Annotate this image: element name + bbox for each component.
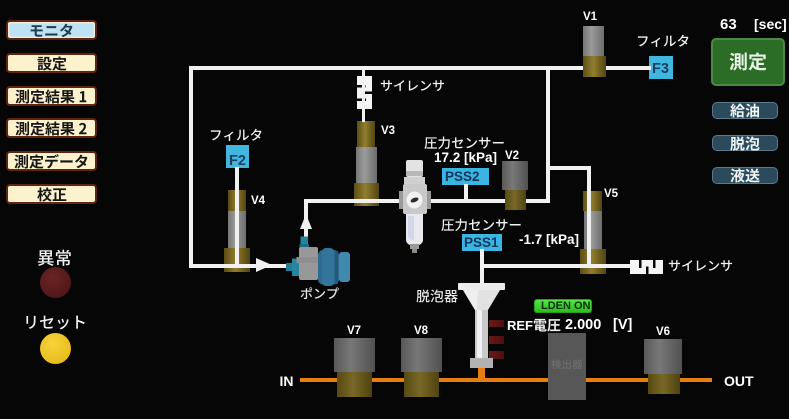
label 圧力センサー (PSS1) [441,218,522,234]
button 校正 [6,184,97,204]
label フィルタ (filter, left) [209,128,263,144]
label 検出器 text [551,359,583,371]
flow arrow up from pump [300,214,312,229]
wire: F2/V4 vertical pipe [235,167,239,268]
button 測定結果1 [6,86,97,106]
button 脱泡 (Defoam) [712,135,778,152]
wire: bottom pipe to right silencer [482,264,631,268]
filter-regulator unit with gauge [397,158,435,256]
valve V2 [502,161,528,190]
countdown 63 [sec] [720,16,737,33]
silencer (top, on V3 vent) [354,76,375,109]
label サイレンサ (right) [668,259,733,274]
REF voltage readout [507,318,533,333]
node IN [280,373,294,389]
wire: V5 vertical pipe [587,166,591,268]
valve V4 [228,190,246,211]
defoamer funnel 脱泡器 [458,282,506,380]
wire: top loop horizontal pipe [189,66,651,70]
valve V6 [644,339,682,374]
node OUT [724,373,754,389]
flow arrow into pump [256,258,272,272]
pressure sensor PSS1 [462,234,502,251]
wire: main horizontal pipe through regulator [304,199,550,203]
valve V5 [583,191,602,211]
button 給油 (Oil supply) [712,102,778,119]
wire: PSS2 stub [464,184,468,200]
label フィルタ (filter, right) [636,34,690,50]
button 液送 (Liquid transfer) [712,167,778,184]
main sample line IN->OUT (orange) [300,378,712,382]
button 測定データ [6,151,97,171]
label リセット (Reset) [23,314,87,332]
heater marks on defoamer [489,320,504,328]
valve V1 [583,26,604,56]
PSS2 value 17.2 kPa [434,150,497,165]
PSS1 value -1.7 kPa [519,232,579,247]
wire: pump outlet riser [304,201,308,243]
valve V8 [401,338,442,372]
wire: silencer to V3 link [362,70,365,122]
wire: loop left vertical pipe [189,66,193,268]
wire: bottom-left pipe to pump inlet [189,264,287,268]
label 圧力センサー (PSS2) [424,136,505,152]
reset lamp (yellow) [40,333,71,364]
filter F3 [649,56,673,79]
button 測定結果2 [6,118,97,138]
wire: branch to V5 [546,166,591,170]
label 脱泡器 [416,289,458,305]
label ポンプ [300,287,339,302]
detector 検出器 [548,333,586,400]
valve V3 [357,121,375,147]
pump ポンプ [283,229,353,289]
pressure sensor PSS2 [442,168,489,185]
error lamp (dark red) [40,267,71,298]
silencer (right, on V5 line) [629,257,665,275]
button モニタ (Monitor, selected) [6,20,97,40]
button 設定 (Settings) [6,53,97,73]
label サイレンサ (top) [380,79,445,94]
filter F2 [226,145,249,169]
LDEN ON indicator [534,299,592,313]
wire: vertical pipe from top loop to main pipe [546,66,550,203]
button 測定 (Measure) [711,38,785,86]
wire: PSS1 stub to defoamer [480,249,484,285]
label 異常 (Error) [37,249,72,269]
valve V7 [334,338,375,372]
